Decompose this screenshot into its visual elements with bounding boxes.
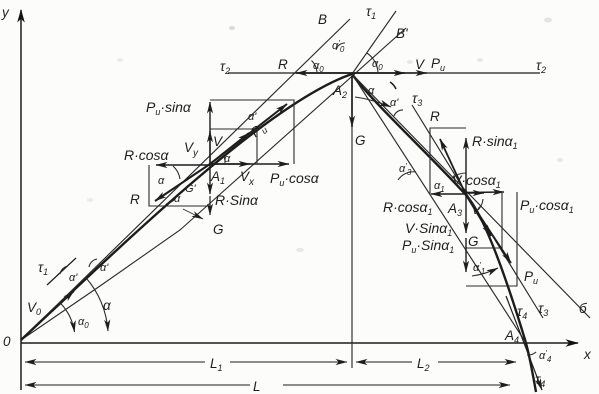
tangent tau4 line through A4: [506, 296, 542, 390]
vector Pu sin alpha up at A1: [209, 102, 211, 164]
x axis: [21, 342, 578, 344]
trajectory falling segment: [352, 74, 536, 392]
vector G at apex: [351, 76, 353, 127]
svg-text:Pu·Sinα1: Pu·Sinα1: [402, 237, 454, 255]
svg-text:Pu·sinα: Pu·sinα: [146, 99, 192, 117]
vector V at A3: [466, 195, 491, 236]
svg-text:α': α': [100, 262, 109, 274]
y axis: [20, 10, 22, 390]
vector R sin alpha1 up at A3: [465, 138, 467, 195]
svg-text:α: α: [174, 193, 181, 205]
vector V0: [21, 291, 74, 340]
rectangle V decomposition at A1: [210, 129, 257, 163]
vector R cos alpha left at A1: [156, 164, 210, 166]
chord line O to B' through apex: [21, 28, 406, 340]
svg-text:α': α': [248, 111, 257, 123]
svg-text:G: G: [355, 133, 366, 148]
svg-text:x: x: [583, 347, 592, 362]
svg-text:R·sinα1: R·sinα1: [472, 133, 518, 151]
angle alpha in R box upper: [173, 166, 180, 179]
rectangle R decomposition at A1: [149, 165, 210, 206]
angle alpha4' arc: [527, 352, 536, 355]
svg-text:V·cosα1: V·cosα1: [452, 172, 501, 190]
tangent tau1 at apex: [352, 11, 396, 74]
svg-text:б: б: [579, 301, 587, 316]
vector V sin alpha1 / G down at A3: [465, 195, 467, 233]
svg-text:G: G: [213, 222, 224, 237]
angle alpha3' arc: [398, 172, 416, 180]
angle tick right of A3: [478, 199, 483, 210]
vector Pu at apex: [352, 72, 427, 74]
svg-text:R·cosα: R·cosα: [124, 147, 170, 163]
vector Vy up at A1: [209, 131, 211, 164]
tangent line at origin to B: [21, 19, 350, 340]
vector R at A1: [155, 164, 210, 201]
svg-text:B: B: [318, 12, 327, 27]
angle alpha0 right of apex: [367, 53, 378, 72]
angle alpha0' tick: [336, 43, 345, 50]
tangent line at A3 (tau3): [412, 105, 543, 318]
svg-text:V·Sinα1: V·Sinα1: [405, 220, 452, 238]
dimension L2: [356, 361, 412, 363]
vector Pu at A3: [466, 195, 511, 263]
svg-text:R: R: [278, 57, 288, 72]
svg-text:G': G': [185, 183, 197, 195]
dimension L1: [25, 361, 60, 363]
angle alpha' tick 1: [60, 266, 68, 274]
svg-text:α': α': [390, 97, 399, 109]
vector V cos alpha1 right at A3: [466, 192, 484, 194]
vector V at A1: [210, 133, 249, 164]
scan noise specks: [87, 18, 563, 253]
vector Pu cos alpha1 right at A3: [466, 191, 504, 194]
angle alpha0 left of apex: [312, 61, 318, 73]
angle alpha' tick 2: [89, 259, 97, 267]
angle alpha1 in box: [452, 173, 466, 178]
vector Vx right at A1: [210, 163, 250, 165]
vector V at apex: [352, 72, 405, 74]
vector Pu sin alpha1 down at A3: [465, 238, 467, 272]
svg-text:α: α: [103, 298, 112, 313]
svg-text:R·Sinα: R·Sinα: [215, 192, 259, 208]
angle alpha lower in R box: [166, 196, 177, 204]
svg-text:α: α: [158, 175, 165, 187]
trajectory rising segment: [21, 74, 352, 340]
vector Pu cos alpha right at A1: [210, 163, 289, 165]
svg-text:0: 0: [3, 334, 11, 349]
tau2 horizontal line through apex: [228, 72, 540, 74]
rectangle Pu decomposition at A1: [210, 100, 294, 164]
rectangle R decomposition at A3: [430, 128, 466, 194]
svg-text:R·cosα1: R·cosα1: [383, 199, 433, 217]
angle alpha' at apex fan: [394, 110, 403, 116]
svg-text:Pu·cosα1: Pu·cosα1: [520, 197, 574, 215]
rectangle V decomposition at A3: [466, 193, 502, 248]
svg-text:G: G: [468, 234, 479, 249]
rectangle Pu decomposition at A3: [466, 192, 517, 286]
vertical separator below apex: [351, 126, 353, 368]
angle alpha arc at origin: [86, 278, 108, 332]
svg-text:B': B': [396, 26, 408, 41]
vector R cos alpha1 left at A3: [431, 193, 466, 195]
svg-text:R: R: [130, 192, 140, 207]
angle alpha0 arc at origin: [61, 303, 75, 332]
vector G down at A1: [209, 196, 211, 215]
svg-text:α: α: [368, 85, 375, 97]
vector Pu at A1: [210, 104, 287, 164]
angle alpha at apex fan: [355, 97, 391, 107]
stray G leader: [183, 209, 203, 219]
svg-text:R: R: [430, 109, 440, 124]
angle tick right of apex: [390, 82, 396, 89]
tau1 stub near origin: [47, 258, 76, 285]
svg-text:α': α': [69, 272, 78, 284]
chord A2 to b (6): [352, 74, 590, 318]
svg-text:L: L: [253, 379, 261, 394]
svg-text:α: α: [224, 153, 231, 165]
angle alpha1' arc at A3: [472, 268, 498, 276]
svg-text:Pu·cosα: Pu·cosα: [270, 170, 320, 188]
angle alpha at A1: [222, 153, 225, 163]
dimension L: [25, 384, 60, 386]
vector R sin alpha down at A1: [209, 164, 211, 194]
vector R at A3: [440, 139, 466, 195]
chord A2 to A4: [352, 74, 526, 343]
svg-text:y: y: [1, 5, 10, 20]
vector R at apex pointing left: [296, 72, 352, 74]
